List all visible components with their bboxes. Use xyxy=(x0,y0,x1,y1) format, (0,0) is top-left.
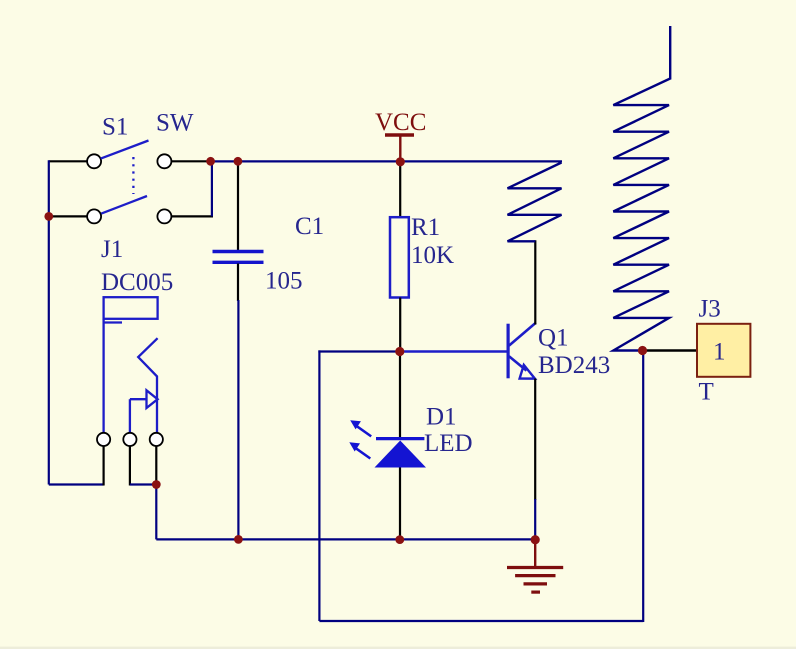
node secondary bottom junction xyxy=(638,346,647,355)
node LED bottom junction xyxy=(395,535,404,544)
wire S1 pin 2 to top rail xyxy=(171,160,212,162)
svg-text:T: T xyxy=(699,378,714,405)
wire base node to Q1 base xyxy=(400,350,508,352)
svg-text:D1: D1 xyxy=(426,404,457,431)
switch S1 xyxy=(87,141,171,224)
wire S1 pin 4 stub xyxy=(171,215,213,217)
connector J3 xyxy=(697,324,750,377)
svg-text:LED: LED xyxy=(424,430,473,457)
node base junction xyxy=(395,347,404,356)
svg-text:R1: R1 xyxy=(411,214,440,241)
svg-text:S1: S1 xyxy=(102,114,128,141)
svg-text:105: 105 xyxy=(265,268,303,295)
svg-text:C1: C1 xyxy=(295,213,324,240)
wire VCC to R1 xyxy=(399,162,401,218)
wire bottom rail xyxy=(156,538,535,540)
inductor L2 secondary coil lead xyxy=(669,26,671,80)
node C1 bottom junction xyxy=(234,535,243,544)
svg-text:J3: J3 xyxy=(699,296,721,323)
wire feedback box left vertical xyxy=(318,350,320,621)
wire Q1 emitter down xyxy=(534,379,536,501)
ground xyxy=(507,540,563,592)
svg-text:J1: J1 xyxy=(101,236,123,263)
node S1 left junction xyxy=(44,212,53,221)
wire feedback left segment xyxy=(318,350,400,352)
inductor L2 secondary coil xyxy=(613,79,670,351)
node S1 right junction xyxy=(206,157,215,166)
transistor Q1 xyxy=(508,323,536,379)
capacitor C1 xyxy=(213,163,264,302)
node C1 top junction xyxy=(234,157,243,166)
LED D1 xyxy=(349,352,426,541)
power VCC xyxy=(385,135,414,162)
wire secondary bottom to J3 xyxy=(643,349,699,351)
node J1 output junction xyxy=(152,480,161,489)
node ground junction xyxy=(531,535,540,544)
wire top rail xyxy=(211,160,562,162)
wire C1 to bottom rail xyxy=(237,300,239,539)
connector J1 DC005 xyxy=(97,297,163,446)
wire top-left stub to S1 pin 1 xyxy=(49,160,88,162)
wire feedback box right vertical xyxy=(642,351,644,623)
svg-text:DC005: DC005 xyxy=(101,269,173,296)
svg-text:10K: 10K xyxy=(411,242,454,269)
wire J1 pin3 stub xyxy=(155,446,157,486)
wire J1 pin1 stub xyxy=(102,446,104,486)
bottom edge shading xyxy=(0,647,796,649)
wire J1 junction down xyxy=(155,485,157,540)
svg-text:Q1: Q1 xyxy=(538,325,569,352)
wire Q1 collector to primary coil xyxy=(534,240,536,324)
wire J1 pin2 stub xyxy=(129,446,131,486)
node VCC junction xyxy=(396,157,405,166)
wire Q1 emitter to ground node xyxy=(534,499,536,540)
resistor R1 xyxy=(390,217,409,297)
svg-text:SW: SW xyxy=(156,109,194,136)
svg-text:BD243: BD243 xyxy=(538,352,610,379)
svg-text:VCC: VCC xyxy=(375,109,426,136)
wire R1 to base node xyxy=(399,298,401,353)
wire S1 right riser xyxy=(211,160,213,216)
wire left rail corner to J1 pin xyxy=(49,483,104,485)
svg-text:1: 1 xyxy=(713,339,726,366)
wire left rail vertical xyxy=(48,160,50,484)
wire bottom-left stub to S1 pin 3 xyxy=(50,215,89,217)
inductor L1 primary coil xyxy=(508,163,562,242)
wire J1 pin2 to pin3 junction xyxy=(130,483,156,485)
wire feedback box bottom xyxy=(319,620,643,622)
